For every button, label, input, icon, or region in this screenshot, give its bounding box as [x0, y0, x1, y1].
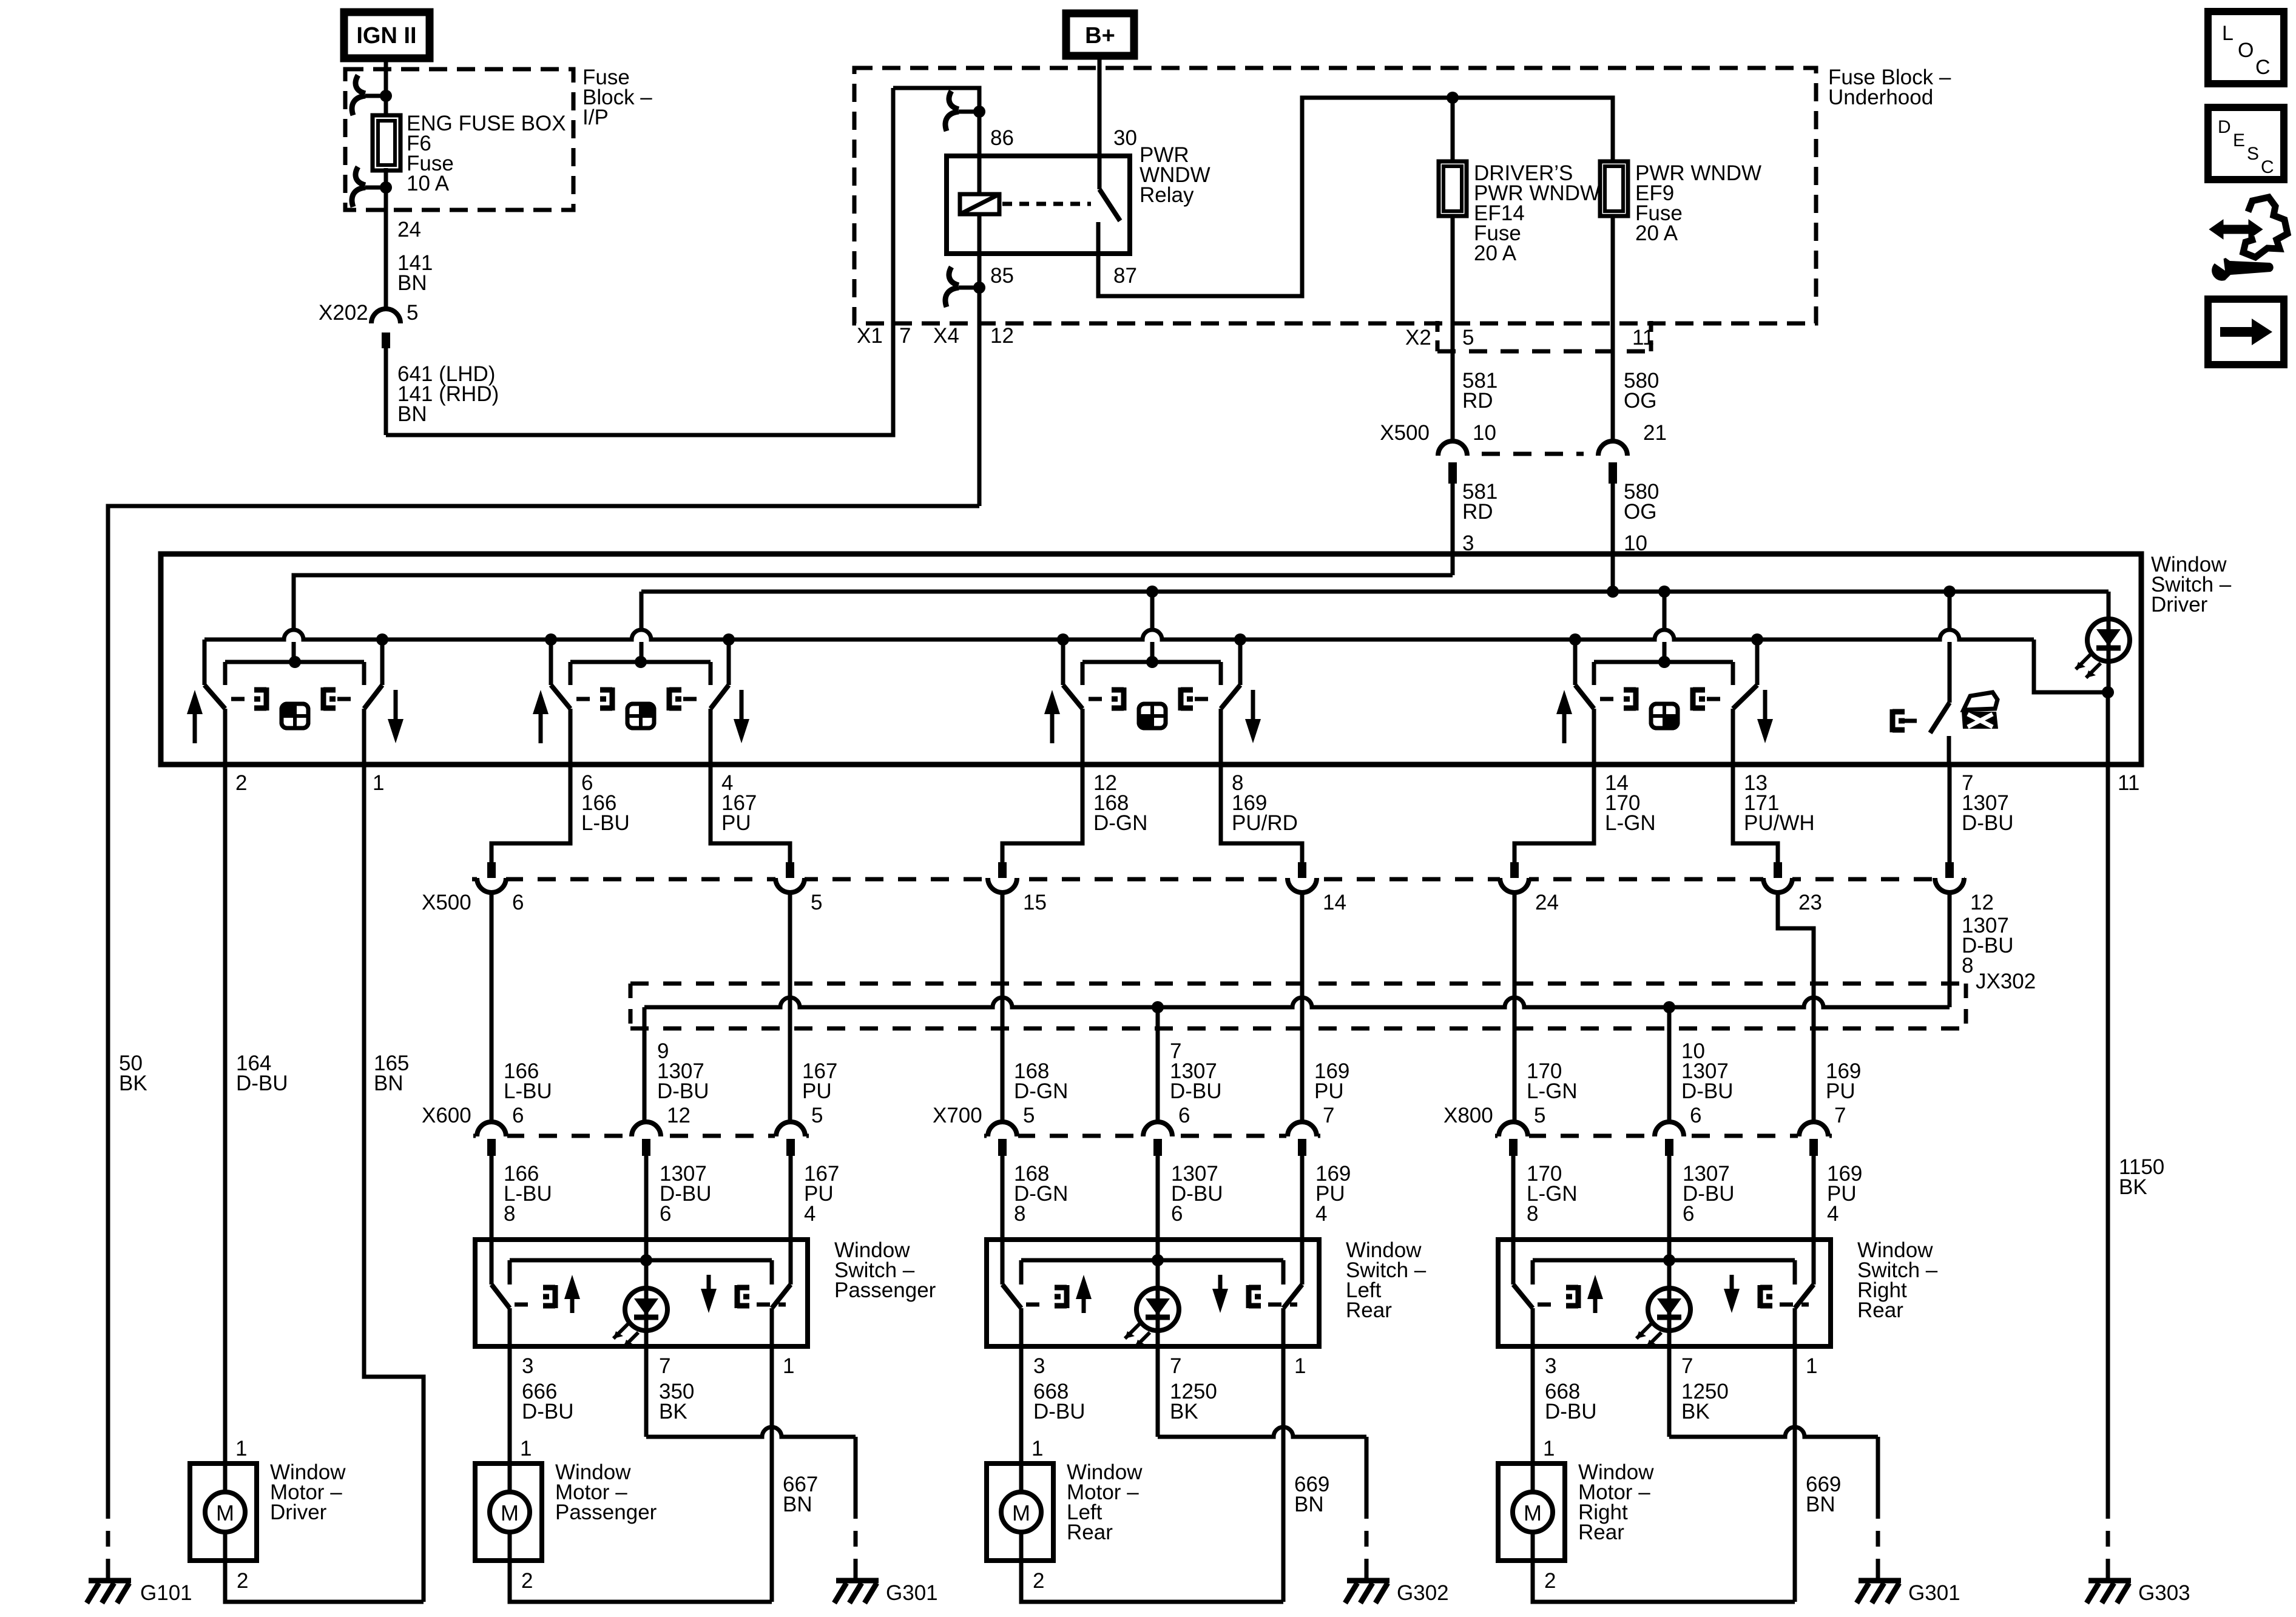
JX302 internal bus 1307 D-BU [644, 998, 1950, 1007]
wire X500-23 jog to X800-7 [1778, 893, 1814, 1122]
svg-text:M: M [1524, 1501, 1542, 1525]
fuse EF14 [1439, 161, 1467, 216]
svg-text:X500: X500 [1380, 421, 1430, 445]
wire 85 to X4-12 down [977, 288, 982, 506]
window switch driver box outline [161, 554, 2141, 765]
wire line B 580 OG feed [641, 590, 1950, 594]
svg-text:BK: BK [119, 1072, 147, 1095]
svg-text:24: 24 [397, 218, 421, 241]
svg-text:G303: G303 [2138, 1581, 2190, 1605]
wire motor feed at x=2526 [1531, 1346, 1535, 1463]
wire BK ground route to G301 at x=3095 [1667, 1346, 1672, 1437]
wire 667 BN return [770, 1346, 774, 1602]
connector X600 pin 6 [476, 1132, 507, 1139]
svg-text:1: 1 [520, 1437, 532, 1460]
svg-text:1: 1 [1032, 1437, 1043, 1460]
wire 169 PU/RD to X500 [1221, 765, 1302, 862]
relay switch lever [1099, 189, 1120, 221]
window switch unit passenger [533, 633, 749, 765]
svg-text:6: 6 [660, 1202, 671, 1226]
connector X500 pin 23 [1763, 875, 1792, 883]
svg-text:D-BU: D-BU [1033, 1400, 1086, 1423]
svg-text:BN: BN [783, 1493, 812, 1516]
wire IGN II to fuse F6 [384, 58, 388, 117]
svg-text:O: O [2238, 39, 2254, 62]
svg-text:Rear: Rear [1346, 1298, 1392, 1322]
ground G301 [1857, 1581, 1901, 1603]
window motor box at x=1626 [987, 1463, 1053, 1561]
wire feed unit4 upper [1663, 592, 1667, 630]
wire feed unit4 lower [1663, 642, 1667, 662]
svg-text:L-BU: L-BU [581, 811, 630, 835]
wire 167 PU mid [788, 893, 792, 1122]
svg-text:Underhood: Underhood [1828, 86, 1933, 109]
window switch unit right rear [1556, 633, 1773, 765]
wire 580 OG to line B [1611, 484, 1615, 592]
ground G302 [1345, 1581, 1389, 1603]
svg-text:85: 85 [990, 264, 1014, 288]
svg-text:PU/WH: PU/WH [1744, 811, 1815, 835]
svg-text:5: 5 [407, 301, 418, 325]
power symbol B+ box [1066, 13, 1134, 56]
svg-text:PU: PU [1314, 1079, 1344, 1103]
svg-text:X4: X4 [933, 324, 959, 348]
svg-text:7: 7 [1170, 1354, 1181, 1378]
wire right contact down [789, 1156, 793, 1284]
wire feed unit3 upper [1150, 592, 1155, 630]
fuse block I/P dashed outline [345, 69, 573, 210]
svg-text:8: 8 [1962, 954, 1973, 977]
connector X800 [1495, 1134, 1832, 1138]
wire left contact down [1001, 1156, 1005, 1284]
svg-text:RD: RD [1462, 500, 1493, 524]
wire EF9 to X500-21 [1611, 216, 1615, 441]
wire 1307 D-BU pin7 to X500-12 [1948, 765, 1952, 862]
svg-text:G301: G301 [1908, 1581, 1960, 1605]
window switch box at x=1626 [987, 1240, 1319, 1347]
svg-text:JX302: JX302 [1976, 970, 2036, 993]
connector X2 dashed [1437, 321, 1651, 351]
svg-text:I/P: I/P [582, 106, 609, 129]
wire LED return to pin 11 [2106, 692, 2110, 765]
svg-text:1: 1 [1806, 1354, 1817, 1378]
junction line B unit4 [1658, 586, 1670, 598]
wire 170 L-GN to X500 [1514, 765, 1594, 862]
window switch box at x=783 [475, 1240, 808, 1347]
wire motor return at x=2526 [1533, 1561, 1795, 1602]
wire to clip 86 [893, 88, 979, 112]
svg-text:30: 30 [1113, 126, 1137, 150]
wire 1307 D-BU pin8 to JX302 [1948, 893, 1952, 1007]
svg-text:5: 5 [1534, 1104, 1545, 1127]
wire left contact down [1511, 1156, 1516, 1284]
svg-text:G302: G302 [1397, 1581, 1449, 1605]
wire B+ to relay 30 [1098, 56, 1102, 189]
svg-text:PU/RD: PU/RD [1232, 811, 1298, 835]
svg-text:2: 2 [235, 771, 247, 795]
svg-text:7: 7 [899, 324, 911, 348]
connector X800 pin 6 [1653, 1132, 1685, 1139]
svg-text:L-GN: L-GN [1605, 811, 1656, 835]
svg-text:BN: BN [397, 402, 427, 426]
svg-text:D-BU: D-BU [236, 1072, 288, 1095]
icon box DESC [2208, 107, 2284, 180]
svg-text:6: 6 [1178, 1104, 1190, 1127]
svg-text:OG: OG [1624, 389, 1656, 413]
junction JX302 pin 7 [1152, 1001, 1164, 1013]
wire line A feed lower [292, 642, 296, 662]
svg-text:E: E [2233, 130, 2245, 150]
svg-text:8: 8 [1014, 1202, 1025, 1226]
connector X500-21 female [1598, 441, 1627, 456]
wire motor feed at x=1683 [1019, 1346, 1024, 1463]
svg-text:D-GN: D-GN [1093, 811, 1147, 835]
window switch unit driver [187, 633, 403, 765]
svg-text:BK: BK [1681, 1400, 1710, 1423]
wire 141 BN to X202 [384, 210, 388, 308]
svg-text:Rear: Rear [1578, 1521, 1624, 1544]
svg-text:L-GN: L-GN [1527, 1079, 1578, 1103]
connector X500 pin 5 [775, 875, 805, 883]
wire line B feed lower unit2 [640, 642, 644, 662]
wire 1307 into box [1667, 1156, 1672, 1260]
svg-text:BK: BK [2119, 1175, 2147, 1199]
connector X500 pin 24 [1500, 875, 1529, 883]
wire motor return at x=1683 [1021, 1561, 1283, 1602]
wire line B corner to unit2 [640, 592, 644, 630]
connector X500-21 male [1609, 462, 1617, 484]
relay 87 stub [1096, 222, 1101, 254]
svg-text:20 A: 20 A [1635, 221, 1678, 245]
svg-text:Passenger: Passenger [555, 1501, 657, 1524]
wire coil to clip 85 [977, 214, 982, 288]
svg-text:4: 4 [1827, 1202, 1838, 1226]
wire relay 87 routing to fuses [1098, 98, 1613, 296]
connector X700 [984, 1134, 1320, 1138]
window lockout icon [1962, 692, 1998, 729]
connector X500 lower row [472, 877, 1969, 882]
svg-text:L: L [2222, 22, 2234, 45]
ground G301 [834, 1581, 879, 1603]
wire 86 to coil [977, 112, 982, 194]
JX302 bus risers [643, 1007, 647, 1122]
clip terminal lower F6 [365, 186, 386, 190]
connector X202 male pin [382, 333, 390, 348]
svg-text:BN: BN [374, 1072, 403, 1095]
ground G101 [87, 1581, 131, 1603]
svg-text:6: 6 [1683, 1202, 1694, 1226]
svg-text:20 A: 20 A [1474, 241, 1517, 265]
svg-text:C: C [2261, 157, 2274, 177]
svg-text:6: 6 [1171, 1202, 1183, 1226]
svg-text:Passenger: Passenger [834, 1278, 936, 1302]
svg-text:G301: G301 [886, 1581, 938, 1605]
svg-text:Rear: Rear [1067, 1521, 1113, 1544]
junction LED return [2102, 686, 2114, 698]
clip terminal 86 [959, 110, 979, 114]
fuse block underhood dashed outline [854, 68, 1816, 323]
svg-text:8: 8 [1527, 1202, 1538, 1226]
svg-text:L-BU: L-BU [504, 1079, 552, 1103]
relay coil [960, 194, 999, 214]
relay coil diagonal [960, 194, 999, 214]
wire to fuse EF14 [1451, 98, 1455, 161]
wire line B to LED corner [1950, 590, 2109, 594]
wire 1150 BK [2106, 765, 2110, 1503]
svg-text:1: 1 [1543, 1437, 1555, 1460]
svg-text:G101: G101 [140, 1581, 192, 1605]
relay PWR WNDW box [947, 156, 1130, 254]
svg-text:X500: X500 [422, 891, 471, 914]
svg-text:6: 6 [512, 891, 524, 914]
wire relay 86 feed vertical [891, 88, 896, 323]
svg-text:BN: BN [1294, 1493, 1324, 1516]
wire JX302-7 to X700-6 [1156, 1007, 1160, 1122]
svg-text:11: 11 [1632, 326, 1654, 349]
window motor box at x=783 [475, 1463, 542, 1561]
svg-text:BK: BK [1170, 1400, 1198, 1423]
svg-text:5: 5 [811, 1104, 823, 1127]
svg-text:BK: BK [659, 1400, 687, 1423]
window switch unit left rear [1044, 633, 1261, 765]
svg-text:5: 5 [1023, 1104, 1035, 1127]
wire motor return at x=371 [225, 1561, 424, 1602]
svg-text:X1: X1 [857, 324, 883, 348]
junction 580 OG line B [1607, 586, 1619, 598]
wire BK ground route to G301 at x=1410 [644, 1346, 649, 1437]
svg-text:D-GN: D-GN [1014, 1079, 1068, 1103]
wire 581 RD to line A [1451, 484, 1455, 575]
ground G303 [2087, 1581, 2131, 1603]
svg-text:X202: X202 [319, 301, 368, 325]
wire motor return at x=840 [510, 1561, 772, 1602]
connector X500-10 female [1438, 441, 1467, 456]
wire 1307 into box [644, 1156, 649, 1260]
svg-text:X600: X600 [422, 1104, 471, 1127]
wire 166 L-BU to X500 [491, 765, 570, 862]
connector X202 female [371, 309, 400, 323]
wire 171 PU/WH to X500 [1733, 765, 1778, 862]
svg-text:S: S [2247, 144, 2259, 164]
icon box arrow [2208, 299, 2284, 365]
wire line A 581 RD feed [294, 575, 1453, 630]
power symbol IGN II box [344, 12, 430, 58]
wire BK ground route to G302 at x=2252 [1156, 1346, 1160, 1437]
clip terminal upper F6 [365, 94, 386, 98]
svg-text:D-BU: D-BU [1962, 811, 2014, 835]
svg-text:87: 87 [1113, 264, 1137, 288]
svg-text:D-BU: D-BU [522, 1400, 574, 1423]
svg-text:5: 5 [1462, 326, 1474, 349]
icon wrench and arrows [2209, 197, 2288, 281]
junction line B lockout [1943, 586, 1956, 598]
window lockout switch [1893, 592, 1950, 765]
junction line B unit3 [1146, 586, 1158, 598]
wire right contact down [1300, 1156, 1305, 1284]
connector X800 pin 7 [1798, 1132, 1829, 1139]
svg-text:86: 86 [990, 126, 1014, 150]
svg-text:10 A: 10 A [407, 172, 450, 195]
wire 50 BK dashed to G101 [106, 1503, 110, 1567]
wire 641 BN [384, 348, 388, 435]
svg-text:5: 5 [811, 891, 822, 914]
svg-text:M: M [216, 1501, 234, 1525]
connector X500 pin 14 [1288, 875, 1317, 883]
svg-text:Relay: Relay [1140, 183, 1194, 207]
svg-text:PU: PU [1826, 1079, 1855, 1103]
svg-text:15: 15 [1023, 891, 1047, 914]
wire 669 BN return LR [1281, 1346, 1286, 1602]
window switch box at x=2469 [1498, 1240, 1831, 1347]
svg-text:6: 6 [512, 1104, 524, 1127]
svg-text:BN: BN [397, 271, 427, 295]
wire 641 BN routing to relay X1-7 [386, 323, 893, 435]
wire 168 D-GN to X500 [1002, 765, 1082, 862]
connector X600 pin 5 [775, 1132, 806, 1139]
svg-text:Driver: Driver [2151, 593, 2208, 616]
wire 669 BN return RR [1793, 1346, 1797, 1602]
svg-text:D-BU: D-BU [1170, 1079, 1222, 1103]
svg-text:2: 2 [1033, 1569, 1044, 1593]
connector X700 pin 7 [1286, 1132, 1318, 1139]
connector X600 [473, 1134, 809, 1138]
icon box LOC [2208, 12, 2284, 84]
svg-text:B+: B+ [1085, 23, 1115, 49]
svg-text:X800: X800 [1443, 1104, 1493, 1127]
fuse F6 [373, 115, 400, 170]
svg-text:BN: BN [1806, 1493, 1835, 1516]
connector X500 pin 15 [988, 875, 1017, 883]
junction JX302 pin 10 [1663, 1001, 1675, 1013]
svg-text:7: 7 [1834, 1104, 1846, 1127]
wire 169 PU mid [1300, 893, 1305, 1122]
wire 166 L-BU mid [490, 893, 494, 1122]
svg-text:OG: OG [1624, 500, 1656, 524]
svg-text:IGN II: IGN II [356, 23, 416, 49]
svg-text:24: 24 [1535, 891, 1559, 914]
wire 167 PU to X500 [711, 765, 790, 862]
LED driver switch illumination [2107, 592, 2111, 619]
connector X500-10 male [1448, 462, 1457, 484]
svg-text:11: 11 [2118, 771, 2139, 795]
connector X700 pin 5 [987, 1132, 1018, 1139]
svg-text:Rear: Rear [1857, 1298, 1903, 1322]
wire feed unit3 lower [1150, 642, 1155, 662]
wire left contact down [490, 1156, 494, 1284]
svg-text:3: 3 [522, 1354, 533, 1378]
svg-text:X700: X700 [933, 1104, 982, 1127]
junction 87 feed [1447, 92, 1459, 104]
X500 upper dashed row [1482, 452, 1584, 456]
bus left end down unit1 contact [203, 640, 207, 685]
wire JX302-10 to X800-6 [1667, 1007, 1672, 1122]
wire ground feed 50 BK routing [108, 506, 979, 1503]
svg-text:7: 7 [1681, 1354, 1693, 1378]
svg-text:2: 2 [237, 1569, 248, 1593]
svg-text:3: 3 [1545, 1354, 1556, 1378]
wire right contact down [1812, 1156, 1816, 1284]
wire 165 BN driver return [364, 765, 424, 1602]
svg-text:6: 6 [1690, 1104, 1701, 1127]
svg-text:M: M [501, 1501, 519, 1525]
svg-text:X2: X2 [1405, 326, 1431, 349]
connector X500 pin 12 [1935, 875, 1964, 883]
svg-text:D-BU: D-BU [657, 1079, 709, 1103]
wire F6 lower [384, 168, 388, 210]
svg-text:2: 2 [521, 1569, 533, 1593]
svg-text:2: 2 [1544, 1569, 1556, 1593]
svg-text:3: 3 [1033, 1354, 1045, 1378]
svg-text:D-BU: D-BU [1681, 1079, 1734, 1103]
junction block JX302 dashed outline [630, 984, 1966, 1028]
connector X800 pin 5 [1497, 1132, 1529, 1139]
wire LED to return [2107, 661, 2111, 692]
svg-text:1: 1 [783, 1354, 794, 1378]
bus line inside driver switch [204, 630, 2034, 640]
svg-text:PU: PU [802, 1079, 832, 1103]
svg-text:21: 21 [1643, 421, 1667, 445]
svg-text:1: 1 [235, 1437, 247, 1460]
wire EF14 to X500-10 [1451, 216, 1455, 441]
svg-text:1: 1 [373, 771, 384, 795]
svg-text:12: 12 [667, 1104, 690, 1127]
clip terminal 85 [959, 286, 979, 290]
svg-text:4: 4 [804, 1202, 815, 1226]
window motor box at x=313 [190, 1463, 257, 1561]
svg-text:Driver: Driver [270, 1501, 327, 1524]
svg-text:14: 14 [1323, 891, 1346, 914]
connector X600 pin 12 [630, 1132, 662, 1139]
svg-text:8: 8 [504, 1202, 515, 1226]
svg-text:23: 23 [1798, 891, 1822, 914]
svg-text:PU: PU [721, 811, 751, 835]
fuse EF9 [1600, 161, 1628, 216]
svg-text:D-BU: D-BU [1545, 1400, 1597, 1423]
wire 164 D-BU driver motor feed [223, 765, 228, 1463]
svg-text:7: 7 [659, 1354, 670, 1378]
wire 170 L-GN mid [1513, 893, 1517, 1122]
relay mechanical link dashed [1002, 202, 1091, 206]
svg-text:12: 12 [1970, 891, 1994, 914]
svg-text:C: C [2255, 56, 2271, 79]
connector X700 pin 6 [1142, 1132, 1173, 1139]
svg-text:D: D [2218, 117, 2231, 137]
svg-text:4: 4 [1315, 1202, 1327, 1226]
bus right end to LED return [2034, 640, 2108, 692]
svg-text:10: 10 [1473, 421, 1496, 445]
svg-text:M: M [1012, 1501, 1030, 1525]
svg-text:RD: RD [1462, 389, 1493, 413]
svg-text:7: 7 [1323, 1104, 1334, 1127]
wire 1307 into box [1156, 1156, 1160, 1260]
window motor box at x=2469 [1498, 1463, 1565, 1561]
wire 168 D-GN mid [1001, 893, 1005, 1122]
connector X500 pin 6 [477, 875, 506, 883]
svg-text:1: 1 [1294, 1354, 1306, 1378]
svg-text:12: 12 [990, 324, 1014, 348]
wire motor feed at x=840 [508, 1346, 512, 1463]
